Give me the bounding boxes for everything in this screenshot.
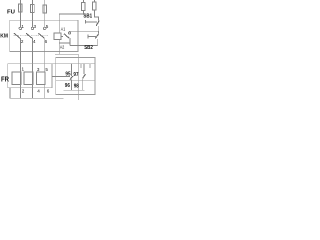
return wire to FR contact <box>55 53 78 55</box>
FR contact 97-98 blade <box>83 74 86 78</box>
FR heater pole1 <box>12 72 21 85</box>
svg-text:96: 96 <box>65 83 70 89</box>
svg-text:5: 5 <box>45 67 48 72</box>
button SB2 upper lead <box>97 31 99 34</box>
wire L2 top <box>31 0 33 27</box>
FR heater pole3 <box>36 72 45 85</box>
FR trip linkage dashed <box>52 75 70 77</box>
wire L3 top <box>44 0 46 27</box>
band line lower <box>56 80 95 82</box>
wire pole3 lower <box>44 38 46 98</box>
KM main contact pole3 fixed terminal circle <box>44 27 46 29</box>
thermal relay FR enclosure box <box>8 64 52 88</box>
fuse FU pole2 <box>31 5 35 13</box>
wire L1 top <box>19 0 21 27</box>
svg-text:3: 3 <box>34 24 37 29</box>
wire SB1 lower lead <box>97 26 99 31</box>
coil KM rect <box>54 33 61 39</box>
fuse FU2b control <box>93 2 97 10</box>
KM main contact pole3 blade <box>38 33 44 38</box>
KM main contact pole2 blade <box>26 33 32 38</box>
coil right nub <box>61 35 63 37</box>
FR contact 95-96 blade <box>70 76 73 80</box>
wire pole2 lower <box>31 38 33 98</box>
svg-text:6: 6 <box>47 89 50 94</box>
svg-text:1: 1 <box>22 67 25 72</box>
svg-text:2: 2 <box>21 39 24 44</box>
button SB2 blade <box>95 34 98 39</box>
FR contact 97-98 upper lead <box>83 64 85 74</box>
svg-text:4: 4 <box>37 89 40 94</box>
svg-text:6: 6 <box>45 39 48 44</box>
button SB1 actuator <box>85 20 87 24</box>
full width band line FR box top <box>8 63 95 65</box>
FR contact 95-96 upper lead <box>70 64 72 76</box>
return vertical through contact box <box>77 54 79 100</box>
svg-text:5: 5 <box>46 24 49 29</box>
svg-text:97: 97 <box>73 72 78 78</box>
fuse FU pole3 <box>43 5 47 13</box>
svg-text:1: 1 <box>21 24 24 29</box>
wire fuse FU2a stubs <box>82 0 84 3</box>
control tap wire horizontal <box>59 14 83 20</box>
fuse FU2a control <box>82 3 86 11</box>
FR contact 95-96 lower lead <box>70 80 72 91</box>
FR heater pole2 <box>24 72 33 85</box>
svg-text:KM: KM <box>0 33 8 39</box>
KM aux lower lead <box>69 38 71 45</box>
svg-text:FU: FU <box>7 9 15 15</box>
wire fuse FU2b to SB1 <box>94 10 98 21</box>
svg-text:A1: A1 <box>61 27 66 33</box>
KM main contact pole1 blade <box>14 33 20 38</box>
button SB1 blade <box>96 21 99 26</box>
inner frame stub left <box>80 64 82 68</box>
svg-text:SB2: SB2 <box>84 45 93 51</box>
KM main contact pole1 fixed terminal circle <box>19 27 21 29</box>
svg-text:4: 4 <box>33 39 36 44</box>
svg-text:SB1: SB1 <box>83 13 92 19</box>
contactor KM enclosure box <box>10 20 78 51</box>
inner frame stub right <box>89 64 91 68</box>
wire fuse FU2b stub top <box>93 0 95 2</box>
mechanical linkage dashed <box>14 35 49 37</box>
svg-text:98: 98 <box>74 83 79 89</box>
wire coil A2 lead <box>58 39 60 54</box>
wire coil A1 lead <box>58 20 60 33</box>
bottom left wire <box>10 88 64 98</box>
button SB2 actuator <box>87 34 89 38</box>
svg-text:95: 95 <box>65 72 70 78</box>
wire pole1 lower <box>19 38 21 98</box>
node wire after SB1 <box>70 30 99 32</box>
join wire contacts bottom <box>64 89 85 91</box>
FR contact 97-98 lower lead <box>82 78 84 90</box>
KM aux contact terminal circle <box>68 32 70 34</box>
svg-text:2: 2 <box>22 89 25 94</box>
fuse FU pole1 <box>19 4 23 12</box>
svg-text:3: 3 <box>37 67 40 72</box>
wire SB2 lower lead <box>97 39 99 46</box>
svg-text:FR: FR <box>1 76 9 83</box>
KM aux contact upper lead <box>69 30 71 33</box>
svg-text:A2: A2 <box>60 45 65 51</box>
KM main contact pole2 fixed terminal circle <box>31 27 33 29</box>
FR aux contact enclosure box <box>56 57 95 94</box>
node wire to coil A2 <box>59 42 70 44</box>
KM aux contact blade <box>64 34 69 38</box>
